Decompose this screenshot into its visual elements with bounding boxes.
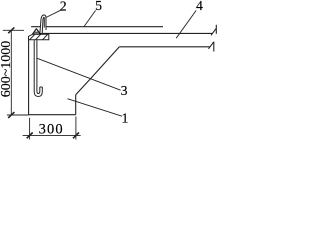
svg-text:4: 4 [196,0,203,13]
svg-text:600~1000: 600~1000 [0,41,14,98]
gutter body: sloped inner face [76,47,120,95]
gutter body: step vertical [75,95,77,115]
top extension line [3,29,24,31]
right tick [73,133,79,139]
bottom tick [8,112,14,118]
top tick [8,27,14,33]
coping plate C1 bottom line [40,32,213,34]
break mark on plate bottom line [211,28,216,35]
roof surface line [119,46,209,48]
leader line to label 4 [176,10,196,38]
svg-text:3: 3 [121,83,128,98]
left extension line [29,118,31,140]
svg-text:1: 1 [122,110,129,125]
leader line to label 3 [37,58,120,90]
wedge clip triangle [33,29,41,34]
svg-text:5: 5 [95,0,102,13]
break mark on roof surface line [209,42,214,49]
gutter body: bottom edge [29,114,76,116]
wall outer face [28,40,30,115]
left tick [27,133,33,139]
dimension line [23,134,81,136]
leader line to label 1 [67,99,122,117]
leader line to label 2 [46,10,60,17]
J anchor bar (item 3), double line [34,40,42,96]
clip inner line [34,31,39,33]
vertical dimension 600~1000 [3,27,29,118]
svg-text:2: 2 [60,0,67,14]
leader line to label 5 [84,10,96,26]
mortar bed pad with hatch [29,34,49,40]
right extension line [75,117,77,140]
bottom extension line [7,114,29,116]
horizontal dimension 300 [23,117,81,140]
anchor strap clip (item 2), leaning crook double line [40,15,46,33]
coping plate C1 top line [31,26,163,28]
svg-text:300: 300 [39,121,64,137]
dimension line vertical [10,30,12,115]
